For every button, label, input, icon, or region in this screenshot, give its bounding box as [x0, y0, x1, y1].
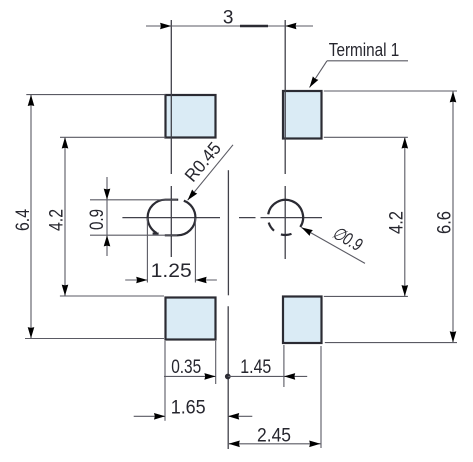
- svg-text:2.45: 2.45: [257, 425, 291, 446]
- center reference dot: [225, 374, 231, 380]
- dimension 1.25 (slot width): [125, 218, 217, 283]
- centerline vertical left hole: [170, 20, 172, 257]
- dimension 0.35: [164, 341, 216, 384]
- dimension 6.4 (far left): [13, 95, 166, 339]
- pad top-left: [166, 95, 216, 138]
- pad bottom-left: [166, 298, 216, 340]
- dimension 4.2 (right): [324, 137, 408, 296]
- pad bottom-right: [283, 297, 322, 344]
- round hole right (0.9 dia): [268, 200, 303, 235]
- svg-text:4.2: 4.2: [387, 211, 408, 234]
- svg-text:6.6: 6.6: [435, 211, 456, 234]
- svg-text:0.9: 0.9: [87, 209, 108, 230]
- label R0.45 with leader: [181, 138, 233, 202]
- dimension 1.45: [228, 345, 307, 387]
- dimension 6.6 (far right): [324, 91, 457, 343]
- centerline vertical component bottom: [227, 306, 229, 449]
- svg-text:0.35: 0.35: [171, 357, 201, 378]
- svg-text:1.45: 1.45: [240, 357, 271, 378]
- centerline vertical right hole: [284, 20, 286, 259]
- centerline vertical component middle: [227, 170, 229, 295]
- svg-text:1.65: 1.65: [171, 398, 206, 419]
- pad top-right (Terminal 1): [283, 91, 322, 139]
- label Terminal 1 with leader: [307, 39, 408, 89]
- dimension 3 (top): [146, 7, 313, 29]
- label dia 0.9 with leader: [300, 222, 366, 263]
- svg-text:6.4: 6.4: [13, 209, 34, 231]
- centerline horizontal right hole: [239, 217, 322, 219]
- dimension 0.9 (slot height): [87, 177, 177, 256]
- svg-text:3: 3: [223, 7, 234, 28]
- centerline horizontal left hole: [122, 217, 220, 219]
- slot hole left (obround): [148, 200, 196, 236]
- svg-text:Terminal 1: Terminal 1: [329, 39, 400, 60]
- dimension 2.45: [228, 346, 321, 448]
- svg-text:1.25: 1.25: [151, 261, 192, 282]
- dimension 1.65: [134, 341, 253, 421]
- svg-text:4.2: 4.2: [47, 209, 68, 231]
- dimension 4.2 (left): [47, 137, 166, 296]
